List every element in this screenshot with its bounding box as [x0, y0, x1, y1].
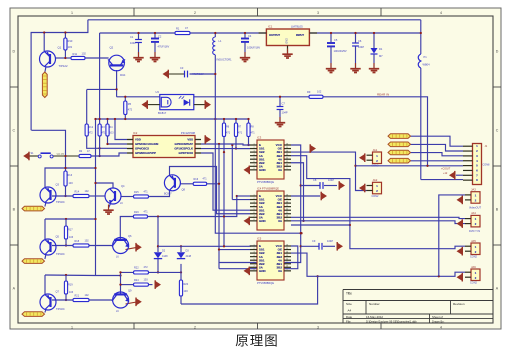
wire R12 bottom to IC2: [87, 136, 127, 148]
svg-text:Q2: Q2: [110, 46, 114, 50]
transistor Q7: [40, 294, 56, 310]
svg-text:IC3: IC3: [257, 136, 262, 140]
svg-text:103: 103: [69, 182, 74, 185]
power port CON8 pin7: [449, 172, 455, 179]
svg-text:C4: C4: [248, 34, 252, 38]
wire Q1 emitter: [45, 67, 46, 73]
svg-text:471: 471: [238, 132, 243, 135]
resistor R17: [64, 226, 67, 239]
svg-text:2: 2: [194, 11, 196, 15]
svg-text:R18: R18: [75, 240, 80, 243]
svg-text:R12: R12: [89, 126, 94, 129]
wire C3 row: [168, 73, 184, 75]
svg-text:472: 472: [128, 108, 133, 112]
power port at IC2 pin VSS: [205, 136, 211, 143]
wire IC3 pin3R to JA2: [291, 152, 367, 190]
wire block3 base row: [52, 299, 73, 301]
svg-text:Q4: Q4: [121, 184, 125, 188]
svg-text:IC5: IC5: [257, 237, 262, 241]
svg-text:15: 15: [286, 147, 288, 149]
wire rail B mid: [100, 32, 267, 34]
wire R15 to Q8: [149, 191, 170, 197]
diode D3: [177, 252, 185, 258]
ground for C7: [279, 117, 281, 122]
svg-text:103: 103: [68, 45, 73, 49]
wire block1 top: [45, 168, 96, 187]
wire IC3 pin4R to JA5: [291, 156, 465, 249]
capacitor C5: [327, 42, 335, 44]
svg-text:Q9: Q9: [128, 289, 132, 293]
svg-text:CON2: CON2: [470, 256, 478, 259]
svg-text:3: 3: [253, 150, 254, 152]
svg-text:Size: Size: [346, 302, 352, 306]
svg-text:C1: C1: [130, 35, 134, 39]
svg-text:16: 16: [286, 143, 288, 145]
svg-text:INDUCTOR1: INDUCTOR1: [217, 58, 233, 62]
svg-text:14: 14: [286, 150, 288, 152]
wire R20 stubs: [180, 272, 182, 280]
svg-text:471: 471: [144, 210, 149, 213]
svg-text:C3: C3: [180, 66, 184, 70]
svg-text:R20: R20: [184, 283, 189, 286]
svg-text:R19: R19: [134, 211, 139, 214]
ground for C1: [138, 52, 140, 57]
power port JA1: [359, 154, 365, 161]
svg-text:GND: GND: [259, 168, 267, 172]
svg-text:100UF/16V: 100UF/16V: [247, 46, 260, 50]
resistor R24: [134, 283, 149, 286]
capacitor C4: [241, 38, 249, 40]
svg-text:A4: A4: [348, 309, 352, 313]
resistor R2: [79, 154, 91, 157]
svg-text:6: 6: [253, 212, 254, 214]
svg-text:IC4 PTV6588RQE: IC4 PTV6588RQE: [257, 187, 279, 191]
sensor pill right 1: [388, 134, 411, 139]
transistor Q4: [105, 188, 121, 204]
wire IC3 pin1R run: [219, 145, 301, 263]
ground port for R24: [155, 281, 161, 288]
svg-text:1: 1: [253, 194, 254, 196]
svg-text:104P: 104P: [327, 239, 333, 243]
svg-text:C7: C7: [282, 102, 286, 106]
svg-text:JA5: JA5: [471, 239, 476, 243]
svg-text:C9: C9: [312, 239, 316, 243]
connector JA5: [471, 243, 480, 255]
wire C9 row: [301, 245, 319, 247]
svg-text:471: 471: [203, 178, 208, 181]
svg-text:PTV6588RQE: PTV6588RQE: [257, 180, 274, 184]
svg-text:VideoOUT: VideoOUT: [469, 206, 481, 210]
connector JA3 VideoOUT: [471, 192, 480, 204]
svg-text:VSS: VSS: [187, 138, 193, 142]
svg-text:TIP40C: TIP40C: [56, 252, 65, 256]
transistor Q8 BC807: [164, 175, 180, 191]
wire R19 stubs: [65, 275, 67, 281]
wire R17 stubs: [65, 219, 67, 226]
svg-text:D1: D1: [379, 47, 383, 51]
diode D2: [154, 252, 162, 258]
connector JA4 DVD Y IN: [471, 215, 480, 227]
IC IC5 PTV6588RQE: [257, 241, 284, 280]
svg-text:R9: R9: [307, 90, 311, 94]
wire v99 rail drop: [99, 33, 101, 124]
svg-text:11: 11: [286, 161, 288, 163]
wire R6 drop through pin3L row to D row: [223, 137, 225, 246]
wire block2 base row: [52, 245, 73, 247]
svg-text:3: 3: [317, 325, 319, 329]
wire block3 top: [45, 274, 96, 277]
power port IC3 OE: [310, 145, 316, 152]
capacitor C6: [352, 42, 359, 44]
connector JA2: [373, 182, 382, 194]
ground for C2: [154, 52, 156, 57]
wire Q5 emitter: [45, 254, 46, 259]
capacitor C3: [184, 71, 186, 78]
svg-text:IC1: IC1: [268, 25, 273, 29]
wire pill4 to CON8: [411, 160, 464, 162]
svg-text:16: 16: [286, 194, 288, 196]
svg-text:C2: C2: [158, 35, 162, 39]
svg-text:3: 3: [317, 11, 319, 15]
capacitor C1: [135, 39, 142, 41]
switch S1: [23, 152, 29, 159]
svg-text:C: C: [12, 129, 15, 133]
sensor pill right 2: [388, 142, 411, 147]
svg-text:2: 2: [253, 198, 254, 200]
svg-text:Q1: Q1: [58, 46, 62, 50]
svg-text:JA6: JA6: [471, 265, 476, 269]
sensor pill under Q1: [42, 72, 47, 98]
wire Q8 base to R16: [180, 183, 193, 185]
wire R8 drop to IC3 pin1L: [249, 137, 251, 145]
wire C8 row: [301, 185, 320, 187]
wire pill2 to CON8: [411, 144, 464, 151]
svg-text:Sheet of: Sheet of: [432, 315, 443, 319]
power port Q6 emitter: [136, 244, 142, 251]
wire IC3 pin6R drop: [291, 163, 304, 221]
svg-text:R24: R24: [134, 279, 139, 282]
svg-text:4: 4: [253, 154, 254, 156]
svg-text:File: File: [346, 320, 351, 324]
title block: [343, 290, 493, 324]
svg-text:LM78L05: LM78L05: [291, 25, 303, 29]
svg-text:1: 1: [71, 325, 73, 329]
svg-text:TIP122: TIP122: [59, 64, 68, 68]
resistor R1: [175, 31, 190, 34]
resistor R6: [222, 123, 225, 137]
resistor R13: [64, 171, 67, 186]
power port JA4: [457, 220, 463, 227]
wire IC4 pin7R to JA4 pin1: [291, 217, 465, 218]
capacitor C8: [319, 182, 321, 189]
svg-text:CON2: CON2: [372, 195, 380, 198]
svg-text:4148: 4148: [162, 255, 168, 258]
wire bottom rail: [181, 276, 318, 304]
svg-text:M7: M7: [379, 54, 383, 58]
wire R4 bottom to IC2: [108, 136, 128, 144]
svg-text:R15: R15: [134, 191, 139, 194]
svg-text:U3: U3: [156, 90, 160, 94]
svg-text:JA2: JA2: [373, 178, 378, 182]
svg-text:104P: 104P: [328, 178, 334, 182]
wire Q9 emitter to port: [126, 302, 137, 304]
transistor Q6: [113, 238, 129, 254]
wire v219 down: [218, 144, 220, 269]
svg-text:5: 5: [253, 158, 254, 160]
wire CON8 pin7 stub: [456, 174, 463, 176]
ground for C5: [330, 63, 332, 68]
ground for Q4: [108, 205, 110, 210]
svg-text:TIP40C: TIP40C: [56, 200, 65, 204]
wire R13 bottom: [65, 186, 67, 196]
svg-text:Number: Number: [369, 302, 380, 306]
svg-text:11: 11: [286, 212, 288, 214]
svg-text:16-May-2012: 16-May-2012: [366, 315, 383, 319]
svg-text:C6: C6: [358, 39, 362, 43]
svg-text:104P: 104P: [130, 41, 136, 45]
svg-text:103: 103: [184, 290, 189, 293]
sensor pill block1: [22, 206, 45, 211]
wire IC2 pin3R to bus: [201, 148, 250, 150]
wire L1 rail down: [215, 55, 301, 233]
capacitor C9: [318, 243, 320, 250]
svg-text:原理图: 原理图: [235, 334, 279, 349]
wire block1 base row: [52, 195, 73, 197]
wire IC5 pin1R long run: [219, 246, 298, 269]
svg-text:IC2: IC2: [133, 131, 138, 135]
svg-text:471: 471: [226, 132, 231, 135]
svg-text:102: 102: [85, 240, 90, 243]
svg-text:R13: R13: [68, 174, 73, 177]
svg-text:15: 15: [286, 198, 288, 200]
wire Q1 collector: [43, 33, 45, 52]
svg-text:R22: R22: [134, 267, 139, 270]
svg-text:103: 103: [69, 291, 74, 294]
power port IC4 VCC: [321, 192, 327, 199]
wire IC2 pin2R to bus: [201, 144, 250, 145]
svg-text:Q7: Q7: [56, 290, 60, 294]
transistor Q1: [40, 51, 56, 67]
svg-text:4: 4: [440, 325, 442, 329]
resistor R16: [193, 182, 207, 185]
svg-text:GP1/ICSPCLK: GP1/ICSPCLK: [174, 147, 193, 151]
diode D1: [373, 33, 375, 48]
wire emitter jog: [87, 88, 117, 90]
svg-text:4: 4: [253, 205, 254, 207]
IC IC4 PTV6588RQE: [257, 191, 284, 230]
svg-text:472: 472: [144, 266, 149, 269]
power port C8: [339, 182, 345, 189]
svg-text:47UF/16V: 47UF/16V: [192, 72, 204, 76]
wire Q1 base row: [56, 57, 66, 59]
wire rail B right: [309, 32, 420, 34]
svg-text:14: 14: [286, 251, 288, 253]
svg-text:BC807: BC807: [164, 193, 172, 196]
svg-text:R5: R5: [128, 102, 132, 106]
svg-text:+CIOUT: +CIOUT: [441, 167, 451, 170]
resistor R4: [106, 124, 109, 136]
ground for C6: [355, 63, 357, 68]
wire CON8 pin5 rail: [356, 165, 464, 167]
capacitor C7: [279, 97, 281, 107]
wire Q6 emitter to port: [126, 247, 137, 249]
wire R10 stubs: [64, 33, 66, 39]
sensor pill right 3: [388, 150, 411, 155]
wire Q7 emitter: [45, 309, 46, 313]
svg-text:GP5/OSC1/CLKIN: GP5/OSC1/CLKIN: [135, 142, 158, 146]
wire pill1 to CON8: [411, 136, 464, 146]
svg-text:10: 10: [286, 165, 288, 167]
svg-text:4148: 4148: [186, 255, 192, 258]
connector J1 CON8: [473, 144, 482, 185]
svg-text:BC817: BC817: [158, 111, 167, 115]
wire JA3 feed: [439, 195, 465, 276]
wire rail x31 to x65 link: [31, 130, 65, 171]
svg-text:102: 102: [85, 294, 90, 297]
svg-text:5: 5: [253, 209, 254, 211]
wire top rail VCC: [88, 19, 421, 21]
border zone ticks: [133, 8, 135, 16]
resistor R20: [179, 280, 182, 296]
svg-text:C8: C8: [313, 178, 317, 182]
wire v95 turn to v120: [96, 275, 121, 277]
power port IC4 GND: [244, 217, 250, 224]
wire main horizontal row y96: [117, 96, 160, 98]
wire bus drop from pin1L row: [231, 145, 233, 200]
power port IC5 GND: [244, 267, 250, 274]
wire v120 collector tie: [120, 272, 122, 293]
wire H216 right segment: [148, 196, 237, 217]
svg-text:8: 8: [253, 168, 254, 170]
svg-text:GP2/T0CKI: GP2/T0CKI: [179, 151, 194, 155]
svg-text:Date: Date: [346, 315, 352, 319]
svg-text:11: 11: [286, 262, 288, 264]
resistor R21: [73, 298, 89, 301]
svg-text:6: 6: [253, 262, 254, 264]
wire R24 to ground: [149, 284, 153, 286]
svg-text:VDD: VDD: [135, 138, 141, 142]
wire D3 top stub: [180, 246, 182, 252]
svg-text:103: 103: [144, 278, 149, 281]
svg-text:R14: R14: [75, 191, 80, 194]
wire REAR-IN vertical: [420, 20, 422, 54]
power port JA6: [457, 274, 463, 281]
svg-text:R21: R21: [75, 295, 80, 298]
svg-text:DVD Y IN: DVD Y IN: [469, 229, 480, 233]
svg-text:D: D: [496, 50, 499, 54]
svg-text:104P: 104P: [282, 111, 288, 115]
svg-text:471: 471: [251, 132, 256, 135]
svg-text:JA3: JA3: [471, 188, 476, 192]
svg-text:104P: 104P: [358, 45, 364, 49]
power port JA2: [359, 184, 365, 191]
svg-text:4: 4: [253, 255, 254, 257]
svg-text:GP4/OSC2: GP4/OSC2: [135, 147, 149, 151]
svg-text:CON2: CON2: [470, 282, 478, 285]
svg-text:9: 9: [286, 168, 287, 170]
wire Q6 collector: [120, 217, 133, 240]
svg-text:103: 103: [109, 132, 114, 135]
svg-text:CON8: CON8: [483, 164, 491, 167]
sensor pill block3: [22, 312, 45, 317]
svg-text:2: 2: [194, 325, 196, 329]
svg-text:3: 3: [253, 201, 254, 203]
svg-text:Q3: Q3: [56, 183, 60, 187]
svg-text:WB04: WB04: [423, 63, 431, 67]
svg-text:7: 7: [253, 216, 254, 218]
wire R5 stubs: [124, 97, 126, 101]
svg-text:7: 7: [253, 266, 254, 268]
wire Q3 emitter: [45, 202, 46, 207]
svg-text:GP3/MCLR/VPP: GP3/MCLR/VPP: [135, 151, 156, 155]
inductor L1: [214, 33, 216, 37]
wire IC5 pin3R to JA6: [291, 253, 465, 276]
power port IC3 GND: [244, 166, 250, 173]
resistor R11: [71, 56, 85, 59]
svg-text:102: 102: [317, 90, 322, 94]
resistor R5: [124, 101, 127, 115]
resistor R7: [234, 123, 237, 137]
wire IC2 VDD from rail: [115, 119, 127, 140]
wire Q2 bottom to main row: [116, 70, 118, 97]
wire pill3 to CON8: [411, 153, 464, 156]
resistor R12: [85, 124, 88, 136]
svg-text:2: 2: [253, 147, 254, 149]
svg-text:GND: GND: [286, 38, 289, 44]
wire IC2 pin4R drop: [201, 153, 250, 210]
sensor pill right 4: [388, 158, 411, 163]
wire block2 top: [45, 218, 96, 220]
microcontroller IC2 PIC12F508: [133, 136, 195, 158]
svg-text:10: 10: [286, 216, 288, 218]
svg-text:8: 8: [253, 269, 254, 271]
svg-text:1: 1: [253, 244, 254, 246]
IC IC3 PTV6588RQE: [257, 140, 284, 179]
power port for C3: [163, 70, 169, 77]
svg-text:GND: GND: [259, 269, 267, 273]
svg-text:100UF/25V: 100UF/25V: [334, 49, 347, 53]
svg-text:R17: R17: [68, 229, 73, 232]
svg-text:4: 4: [440, 11, 442, 15]
svg-text:8: 8: [253, 219, 254, 221]
svg-text:6: 6: [253, 161, 254, 163]
svg-text:103: 103: [69, 236, 74, 239]
power port JA3: [457, 196, 463, 203]
svg-text:C: C: [496, 129, 499, 133]
svg-text:12: 12: [286, 209, 288, 211]
connector P1 WB04: [418, 54, 421, 68]
wire IC4 pin1R power: [291, 195, 320, 197]
ground for C4: [244, 52, 246, 57]
svg-text:SW-PB: SW-PB: [57, 154, 65, 156]
svg-text:Title: Title: [346, 292, 352, 296]
svg-text:GND: GND: [259, 219, 267, 223]
svg-text:CON2: CON2: [372, 165, 380, 168]
svg-text:JA1: JA1: [373, 148, 378, 152]
ground for D1: [373, 63, 375, 68]
svg-text:R16: R16: [194, 178, 199, 181]
svg-text:3: 3: [253, 251, 254, 253]
svg-text:+12: +12: [443, 172, 448, 175]
svg-text:D:\Design Explorer 99 SE\Examp: D:\Design Explorer 99 SE\Examples\1.ddb: [366, 320, 417, 324]
wire v158 through D2: [157, 217, 159, 253]
svg-text:13: 13: [286, 205, 288, 207]
wire R3 bottom to S1 row: [99, 136, 101, 156]
svg-text:472: 472: [89, 132, 94, 135]
svg-text:R10: R10: [68, 39, 73, 43]
svg-text:GP0/ICSPDAT: GP0/ICSPDAT: [175, 142, 194, 146]
wire v86 to R12: [86, 90, 88, 124]
